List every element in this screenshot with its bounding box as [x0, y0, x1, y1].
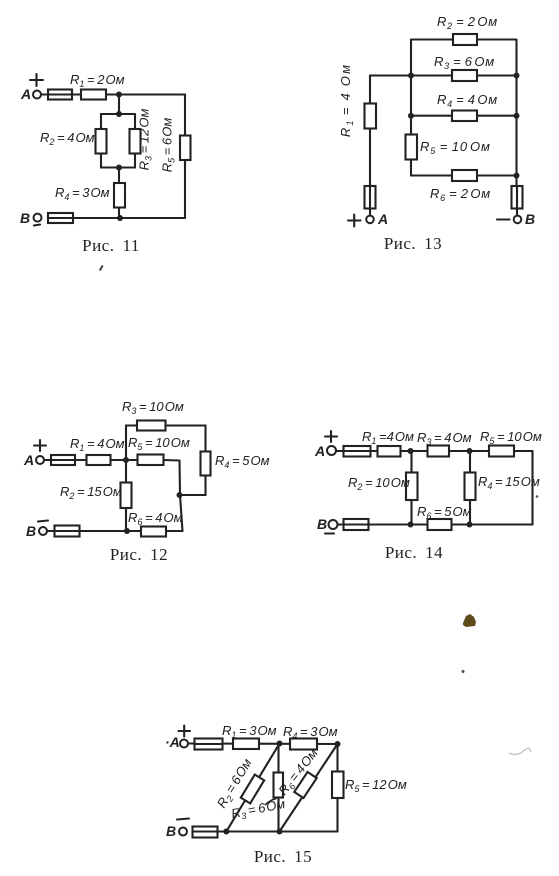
- svg-text:А: А: [314, 443, 325, 459]
- resistor R1: [81, 90, 106, 100]
- svg-text:В: В: [525, 211, 535, 227]
- wire A to R1 and node to right bus corner (top row): [41, 93, 185, 95]
- resistor R2: [453, 34, 477, 45]
- svg-text:В: В: [166, 823, 176, 839]
- node right bus R3: [514, 73, 520, 79]
- plus sign at A: [348, 215, 361, 227]
- wire A top row: [188, 742, 338, 745]
- wire R3 branch up from node: [126, 426, 137, 461]
- resistor R1: [87, 455, 111, 465]
- svg-text:R5 = 6 Ом: R5 = 6 Ом: [160, 118, 177, 173]
- leader line from R3 label to resistor: [265, 799, 277, 806]
- fuse at terminal A: [344, 446, 371, 457]
- svg-text:Рис.15: Рис.15: [254, 847, 312, 866]
- resistor R4: [114, 183, 125, 208]
- resistor R3: [274, 773, 284, 798]
- wire bottom branch horizontal: [101, 166, 135, 168]
- overline above B: [177, 819, 189, 820]
- svg-text:Рис.11: Рис.11: [82, 236, 140, 255]
- brown blotch: [463, 614, 476, 627]
- tick below B terminal: [34, 225, 40, 226]
- svg-text:А: А: [20, 86, 31, 102]
- wire R4 bottom to junction: [180, 476, 206, 496]
- resistor R5: [138, 455, 164, 466]
- wire R3 branch vertical: [277, 744, 279, 832]
- resistor R6: [452, 170, 477, 181]
- terminal A: [180, 740, 188, 748]
- node N3 bottom: [124, 528, 130, 534]
- wire junction down through R4 to bottom: [118, 168, 120, 219]
- svg-text:R4 = 3 Ом: R4 = 3 Ом: [283, 724, 338, 741]
- svg-text:R6 = 2 Ом: R6 = 2 Ом: [430, 186, 491, 203]
- wire bottom row B to right bus: [73, 217, 185, 219]
- svg-text:R2 = 10 Ом: R2 = 10 Ом: [348, 475, 410, 492]
- wire R4 branch vertical: [469, 451, 471, 525]
- wire R2 diagonal: [226, 744, 279, 832]
- svg-text:А: А: [377, 211, 388, 227]
- fuse at terminal B: [344, 519, 369, 530]
- node R4 bottom: [117, 215, 123, 221]
- minus sign at B: [497, 218, 510, 220]
- tiny dot speck right of fig14: [536, 495, 539, 498]
- resistor R6: [141, 527, 166, 537]
- svg-text:R1 = 2 Ом: R1 = 2 Ом: [70, 72, 125, 89]
- wire left bus vertical: [410, 40, 412, 135]
- wire B row: [47, 530, 141, 532]
- svg-text:·А: ·А: [165, 734, 180, 750]
- wire right vertical R5/R4/R6 join: [180, 461, 183, 532]
- wire right bus vertical: [515, 40, 517, 187]
- wire right branch down to R3: [134, 114, 136, 168]
- terminal B: [34, 214, 42, 222]
- fuse at terminal B: [193, 827, 218, 838]
- svg-text:R1 = 4 Ом: R1 = 4 Ом: [338, 63, 355, 137]
- terminal B: [39, 527, 47, 535]
- resistor R3: [137, 421, 166, 431]
- resistor R4: [452, 111, 477, 122]
- terminal B: [329, 520, 338, 529]
- resistor R2 (diagonal): [241, 775, 264, 804]
- svg-text:Рис.14: Рис.14: [385, 543, 443, 562]
- wire A row: [44, 459, 138, 461]
- node left bus R4: [408, 113, 414, 119]
- node N2: [335, 741, 341, 747]
- resistor R3: [428, 446, 450, 457]
- plus sign at A: [325, 431, 337, 442]
- node N4: [467, 522, 473, 528]
- wire R5 branch vertical: [336, 744, 338, 832]
- svg-text:Рис.13: Рис.13: [384, 234, 442, 253]
- wire R2 branch vertical: [125, 460, 127, 531]
- node bottom of parallel branch: [116, 165, 122, 171]
- wire R3 right to R4 top: [166, 426, 206, 452]
- fuse at terminal B: [512, 186, 523, 209]
- svg-text:В: В: [20, 210, 30, 226]
- svg-text:R4 = 3 Ом: R4 = 3 Ом: [55, 185, 110, 202]
- tiny dot speck: [462, 670, 465, 673]
- fuse at terminal A: [365, 186, 376, 209]
- svg-text:R1 = 4 Ом: R1 = 4 Ом: [70, 436, 125, 453]
- fuse at terminal B: [48, 213, 73, 223]
- plus sign at A: [34, 440, 46, 451]
- svg-text:R4 = 5 Ом: R4 = 5 Ом: [215, 453, 270, 470]
- svg-text:R5 = 10 Ом: R5 = 10 Ом: [480, 429, 542, 446]
- wire right bus vertical: [184, 95, 186, 219]
- wire R6 diagonal: [280, 744, 338, 832]
- svg-text:R4 = 15 Ом: R4 = 15 Ом: [478, 474, 540, 491]
- svg-text:R3 = 10 Ом: R3 = 10 Ом: [122, 399, 184, 416]
- node right bus R4: [514, 113, 520, 119]
- fuse at terminal B: [55, 526, 80, 537]
- wire top branch horizontal: [101, 113, 135, 115]
- resistor R6: [428, 519, 452, 530]
- terminal A: [327, 446, 336, 455]
- svg-text:R2 = 2 Ом: R2 = 2 Ом: [437, 14, 498, 31]
- wire R5 right to corner: [164, 459, 180, 462]
- wire left branch down to R2: [100, 114, 102, 168]
- svg-text:В: В: [26, 523, 36, 539]
- node N1: [123, 457, 129, 463]
- node N3: [223, 829, 229, 835]
- wire left bus lower segment: [410, 160, 412, 176]
- node N4: [277, 829, 283, 835]
- svg-text:R3 = 12 Ом: R3 = 12 Ом: [137, 109, 154, 171]
- wire R3 row: [370, 74, 517, 76]
- svg-text:R5 = 12 Ом: R5 = 12 Ом: [345, 777, 407, 794]
- terminal A: [36, 456, 44, 464]
- fuse at terminal A: [195, 739, 223, 750]
- ink speck top area: [99, 265, 104, 271]
- wire stub fuse A to terminal: [369, 209, 371, 216]
- node N2: [467, 448, 473, 454]
- svg-text:А: А: [23, 452, 34, 468]
- node N1: [277, 741, 283, 747]
- wire A top row: [336, 450, 533, 452]
- svg-text:R1 =4 Ом: R1 =4 Ом: [362, 429, 414, 446]
- plus sign at A: [179, 726, 191, 737]
- node N3: [408, 522, 414, 528]
- resistor R2: [96, 129, 107, 154]
- svg-text:R5 = 10 Ом: R5 = 10 Ом: [128, 435, 190, 452]
- resistor R2: [121, 483, 132, 509]
- wire R4 row: [411, 115, 517, 117]
- wire R1 branch vertical: [369, 76, 371, 187]
- fuse at terminal A: [48, 90, 72, 100]
- node right bus R6: [514, 173, 520, 179]
- resistor R5: [332, 772, 344, 799]
- resistor R5: [180, 136, 191, 161]
- resistor R6 (diagonal): [294, 772, 316, 798]
- wire node N1 down to parallel top branch: [118, 95, 120, 115]
- resistor R4: [465, 473, 476, 501]
- node N1: [408, 448, 414, 454]
- faint squiggle right margin fig15: [509, 748, 531, 755]
- resistor R5: [489, 446, 514, 457]
- resistor R4: [201, 452, 211, 476]
- resistor R5: [406, 135, 418, 160]
- wire R6 right: [166, 530, 183, 532]
- svg-text:R2 = 15 Ом: R2 = 15 Ом: [60, 484, 122, 501]
- svg-text:R4 = 4 Ом: R4 = 4 Ом: [437, 92, 498, 109]
- svg-text:R3 = 6 Ом: R3 = 6 Ом: [434, 54, 495, 71]
- wire R2 branch vertical: [410, 451, 412, 525]
- node right junction: [177, 492, 183, 498]
- wire B bottom row: [218, 830, 338, 832]
- svg-text:R3 = 4 Ом: R3 = 4 Ом: [417, 430, 472, 447]
- resistor R1: [365, 104, 377, 129]
- svg-text:Рис.12: Рис.12: [110, 545, 168, 564]
- wire top row R2: [411, 38, 517, 40]
- node top of parallel branch: [116, 111, 122, 117]
- svg-text:В: В: [317, 516, 327, 532]
- plus sign at A: [30, 74, 43, 86]
- svg-text:R6 = 5 Ом: R6 = 5 Ом: [417, 504, 472, 521]
- fuse at terminal A: [51, 455, 75, 465]
- underline below B: [325, 532, 334, 534]
- wire B bottom row: [337, 523, 533, 525]
- resistor R4: [290, 739, 317, 750]
- minus mark above B: [38, 521, 48, 522]
- terminal B: [179, 828, 187, 836]
- svg-text:R6 = 4 Ом: R6 = 4 Ом: [128, 510, 183, 527]
- resistor R3: [130, 129, 141, 154]
- resistor R2: [406, 473, 418, 501]
- terminal A: [366, 216, 374, 224]
- terminal B: [514, 216, 522, 224]
- resistor R3: [452, 70, 477, 81]
- terminal A: [33, 91, 41, 99]
- svg-text:R2 = 4 Ом: R2 = 4 Ом: [40, 130, 95, 147]
- node N1: [116, 92, 122, 98]
- node left bus R3: [408, 73, 414, 79]
- wire right vertical: [531, 451, 533, 525]
- svg-text:R5 = 10 Ом: R5 = 10 Ом: [420, 139, 491, 156]
- resistor R1: [378, 446, 401, 457]
- wire R6 row: [411, 174, 517, 176]
- resistor R1: [233, 739, 259, 750]
- svg-text:R1 = 3 Ом: R1 = 3 Ом: [222, 723, 277, 740]
- wire stub fuse B to terminal: [516, 209, 518, 216]
